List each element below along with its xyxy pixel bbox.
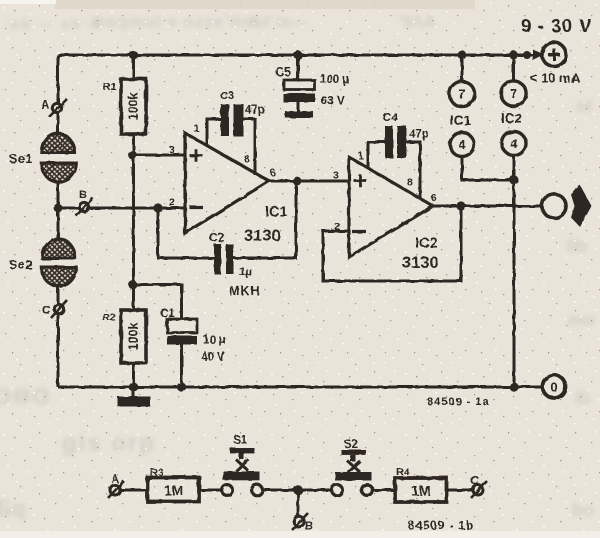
svg-text:84509 - 1b: 84509 - 1b (408, 519, 474, 533)
svg-text:47p: 47p (409, 129, 429, 141)
svg-text:7: 7 (510, 86, 517, 101)
svg-text:3130: 3130 (244, 227, 281, 245)
svg-text:100k: 100k (127, 323, 141, 351)
svg-text:Se2: Se2 (9, 258, 33, 272)
svg-text:B: B (79, 189, 87, 201)
svg-text:1: 1 (194, 124, 200, 135)
svg-text:IC2: IC2 (501, 111, 522, 126)
svg-text:1: 1 (358, 151, 364, 162)
svg-text:1M: 1M (164, 482, 183, 498)
svg-text:R2: R2 (102, 312, 116, 324)
svg-text:C: C (42, 303, 51, 317)
svg-text:63 V: 63 V (321, 96, 345, 108)
svg-text:10 µ: 10 µ (203, 335, 226, 347)
svg-text:3130: 3130 (402, 254, 439, 272)
svg-text:8: 8 (244, 154, 250, 166)
svg-text:1M: 1M (411, 483, 430, 499)
svg-text:R3: R3 (150, 467, 164, 479)
svg-text:C5: C5 (275, 65, 291, 79)
svg-text:84509 - 1a: 84509 - 1a (427, 396, 490, 408)
svg-text:IC1: IC1 (265, 205, 288, 221)
svg-text:47p: 47p (245, 105, 265, 117)
svg-text:MKH: MKH (229, 284, 260, 298)
svg-text:IC2: IC2 (415, 236, 438, 252)
svg-text:C: C (470, 474, 479, 488)
svg-text:C2: C2 (209, 231, 225, 245)
svg-text:3: 3 (333, 170, 339, 182)
svg-text:9 - 30 V: 9 - 30 V (521, 16, 592, 36)
svg-text:7: 7 (458, 87, 465, 102)
svg-text:R4: R4 (396, 466, 410, 478)
svg-text:6: 6 (270, 168, 276, 179)
svg-text:4: 4 (459, 138, 466, 152)
svg-text:1µ: 1µ (239, 267, 252, 279)
svg-text:100k: 100k (127, 93, 141, 121)
svg-text:B: B (305, 521, 313, 533)
svg-text:0: 0 (550, 380, 557, 395)
svg-text:2: 2 (334, 221, 340, 233)
svg-text:3: 3 (169, 144, 175, 156)
svg-text:100 µ: 100 µ (320, 74, 349, 86)
svg-text:C3: C3 (220, 90, 234, 102)
svg-text:S2: S2 (344, 439, 358, 451)
svg-text:4: 4 (511, 137, 518, 151)
svg-text:8: 8 (407, 177, 413, 189)
svg-text:A: A (41, 100, 49, 112)
svg-text:< 10 mA: < 10 mA (530, 71, 581, 86)
svg-text:Se1: Se1 (9, 152, 33, 166)
svg-text:S1: S1 (233, 435, 248, 447)
svg-text:A: A (111, 474, 119, 486)
svg-text:R1: R1 (103, 81, 117, 93)
svg-text:6: 6 (431, 193, 437, 204)
svg-text:C1: C1 (160, 308, 175, 320)
svg-text:40 V: 40 V (201, 352, 225, 364)
svg-text:IC1: IC1 (450, 113, 472, 128)
svg-text:C4: C4 (383, 113, 398, 125)
svg-text:2: 2 (169, 197, 175, 209)
